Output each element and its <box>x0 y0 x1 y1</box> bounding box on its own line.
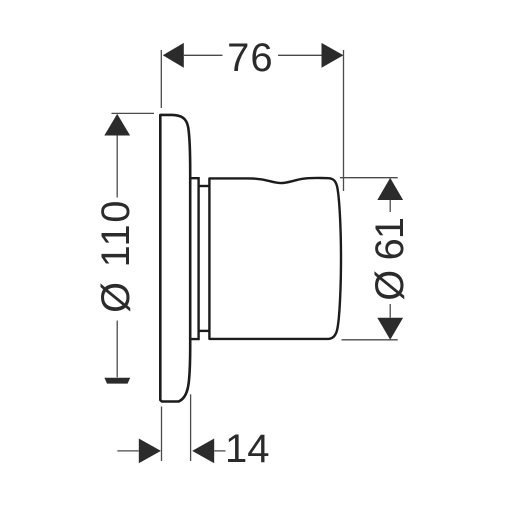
dim Ø110: dimension line segments <box>116 136 118 198</box>
groove ring bottom edge <box>199 330 210 332</box>
dim Ø110: up arrow <box>104 114 130 136</box>
groove ring top edge <box>199 185 210 187</box>
escutcheon plate outline <box>160 115 190 402</box>
dim 14: left-pointing arrow <box>192 439 214 464</box>
sleeve ring behind handle <box>190 178 198 339</box>
dim Ø61: dimension line segments <box>389 200 391 212</box>
svg-text:Ø 110: Ø 110 <box>94 199 138 313</box>
svg-text:14: 14 <box>225 427 270 471</box>
svg-text:Ø 61: Ø 61 <box>368 218 412 301</box>
svg-text:76: 76 <box>227 36 274 80</box>
dim 76: right extension line <box>343 50 345 191</box>
dim 76: left extension line <box>160 50 162 108</box>
dim Ø110: bottom flat stop marker <box>104 378 130 384</box>
dim Ø61: bottom extension line <box>342 339 398 341</box>
dim Ø61: up arrow <box>377 178 403 200</box>
dim 76: right arrow <box>322 43 344 68</box>
dim 14: right stub line <box>214 450 225 452</box>
dim Ø61: top extension line <box>340 177 398 179</box>
dim Ø61: down arrow <box>377 318 403 340</box>
dim Ø110: top extension line <box>112 112 155 114</box>
handle cylinder body <box>209 178 341 339</box>
dim 76: dimension line segments <box>184 54 223 56</box>
dim 14: right-pointing arrow <box>139 439 161 464</box>
dim 14: right extension line <box>190 394 192 461</box>
dim 76: left arrow <box>163 43 184 68</box>
dim 14: left extension line <box>161 406 163 461</box>
dim 14: left stub line <box>117 450 139 452</box>
